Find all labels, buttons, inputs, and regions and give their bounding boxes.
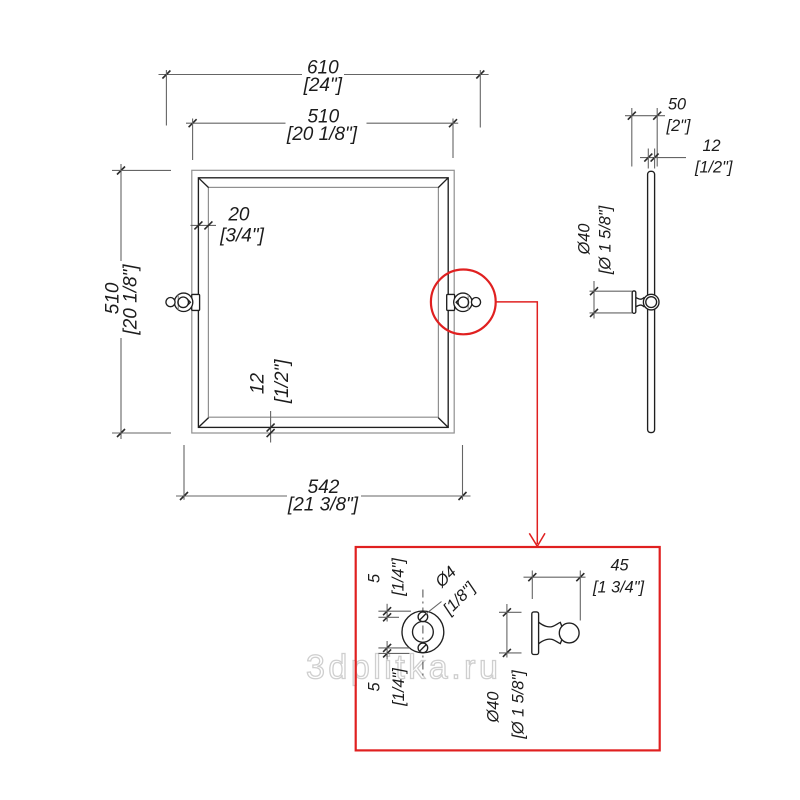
- side view pivot: stem bottom edge: [636, 305, 645, 307]
- dimension 510 left extension bottom: [112, 432, 171, 434]
- left pivot: hub notch: [188, 300, 190, 305]
- side view pivot: ring inner: [646, 297, 657, 308]
- dimension 542 extension left: [183, 445, 185, 500]
- dimension 12 front tick bottom: [267, 429, 275, 437]
- detail dimension dia40 tick bottom: [503, 649, 511, 657]
- dimension 542 tick left: [180, 492, 188, 500]
- detail plate: centerline: [422, 590, 424, 680]
- front view: bevel diagonal bottom-left: [199, 418, 209, 427]
- detail dimension 5 bottom extension 2: [378, 652, 409, 654]
- svg-text:[21 3/8"]: [21 3/8"]: [287, 495, 359, 516]
- detail dimension dia40 extension bottom: [499, 652, 522, 654]
- dimension 12 front line: [270, 411, 272, 443]
- red leader arrowhead: [529, 533, 545, 546]
- dimension 510 top extension left: [192, 119, 194, 161]
- dimension 510 top text mask: [286, 106, 367, 141]
- detail knob: wall plate: [532, 612, 539, 655]
- dimension 12 side extension left: [647, 149, 649, 169]
- dimension 50 extension right: [656, 108, 658, 167]
- dimension 12 side tick right: [651, 154, 659, 162]
- detail knob: stem top edge: [539, 622, 562, 627]
- svg-text:12: 12: [248, 373, 269, 395]
- detail plate: bottom screw: [418, 643, 428, 653]
- dimension 12 front tick top: [267, 424, 275, 432]
- front view: bevel rect: [198, 178, 448, 428]
- detail dimension dia4 leader: [426, 602, 442, 614]
- svg-text:Ø40: Ø40: [576, 224, 594, 256]
- dimension 610 tick right: [476, 71, 484, 79]
- svg-text:[1/4"]: [1/4"]: [390, 668, 408, 707]
- dimension 542 line: [176, 495, 471, 497]
- dimension 20 tick right: [204, 221, 212, 229]
- side view: mirror bar: [648, 171, 655, 432]
- svg-text:[Ø 1 5/8"]: [Ø 1 5/8"]: [510, 670, 528, 740]
- detail dimension 45 extension left: [531, 571, 533, 600]
- detail dimension dia40 tick top: [503, 608, 511, 616]
- svg-text:[3/4"]: [3/4"]: [219, 226, 264, 247]
- dimension 20 line: [191, 224, 217, 226]
- svg-text:5: 5: [366, 682, 384, 692]
- right pivot: inner hub circle: [458, 297, 469, 308]
- detail knob: ball: [559, 623, 579, 643]
- red detail box: [356, 547, 660, 750]
- svg-text:[1 3/4"]: [1 3/4"]: [592, 579, 645, 597]
- dimension 50 line: [625, 115, 665, 117]
- svg-text:[1/4"]: [1/4"]: [390, 558, 408, 597]
- dimension 510 left tick top: [117, 167, 125, 175]
- svg-text:[24"]: [24"]: [303, 75, 343, 96]
- dimension 510 top tick left: [189, 119, 197, 127]
- svg-text:[20 1/8"]: [20 1/8"]: [286, 124, 358, 145]
- dimension 510 top tick right: [449, 119, 457, 127]
- svg-text:12: 12: [702, 137, 720, 155]
- dimension 12 side line: [640, 157, 686, 159]
- side view pivot: ring outer: [643, 294, 659, 310]
- front view: bevel diagonal top-right: [438, 178, 448, 187]
- dimension 50 tick left: [628, 112, 636, 120]
- detail dimension 5 bottom tick 1: [383, 644, 391, 652]
- svg-text:[Ø 1 5/8"]: [Ø 1 5/8"]: [597, 205, 615, 275]
- detail plate: bottom screw slot: [420, 645, 427, 652]
- red callout circle: [431, 270, 496, 335]
- left pivot: end knob circle: [166, 298, 175, 307]
- dimension 610 line: [159, 74, 489, 76]
- left pivot: flange chord line: [177, 295, 179, 310]
- right pivot: hub notch: [456, 300, 458, 305]
- right pivot: knob flange circle: [454, 293, 472, 311]
- right pivot: flange chord line: [467, 295, 469, 310]
- svg-text:[20 1/8"]: [20 1/8"]: [121, 264, 142, 336]
- detail plate: outer circle: [402, 611, 444, 653]
- front view: inner glass rect: [208, 187, 438, 417]
- detail dimension dia40 line: [506, 604, 508, 658]
- dimension 50 extension left: [631, 108, 633, 167]
- svg-text:[2"]: [2"]: [666, 117, 691, 135]
- left pivot: mounting plate: [192, 294, 200, 310]
- left pivot: inner hub circle: [178, 297, 189, 308]
- dimension 510 left line: [120, 164, 122, 439]
- dimension 542 tick right: [459, 492, 467, 500]
- detail plate: top screw slot: [420, 613, 427, 620]
- detail dimension 45 tick left: [528, 573, 536, 581]
- dimension dia40 side extension top: [590, 290, 632, 292]
- left pivot: knob flange circle: [174, 293, 192, 311]
- dimension 542 text mask: [287, 494, 361, 502]
- dimension 542 extension right: [462, 445, 464, 500]
- svg-text:50: 50: [668, 96, 686, 114]
- dimension dia40 side extension bottom: [590, 312, 632, 314]
- front view: outer frame rect: [192, 170, 454, 433]
- front view: bevel diagonal top-left: [199, 178, 209, 187]
- dimension dia40 side line: [593, 281, 595, 319]
- svg-text:20: 20: [227, 205, 250, 226]
- dimension dia40 side tick bottom: [590, 309, 598, 317]
- svg-text:45: 45: [610, 556, 629, 574]
- svg-text:[1/2"]: [1/2"]: [694, 158, 733, 176]
- dimension 610 extension left: [165, 70, 167, 126]
- dimension 12 side extension right: [654, 149, 656, 169]
- dimension 610 tick left: [162, 71, 170, 79]
- right pivot: end knob circle: [471, 298, 480, 307]
- svg-text:[1/2"]: [1/2"]: [272, 359, 293, 404]
- dimension 610 text mask: [302, 56, 344, 75]
- dimension 510 left text mask: [103, 261, 139, 338]
- side view pivot: wall plate: [632, 291, 636, 313]
- detail dimension 5 bottom tick 2: [383, 649, 391, 657]
- detail dimension 45 extension right: [579, 571, 581, 621]
- detail dimension 45 line: [524, 576, 586, 578]
- dimension 610 extension right: [479, 70, 481, 128]
- dimension 12 side tick left: [644, 154, 652, 162]
- dimension 510 left tick bottom: [117, 429, 125, 437]
- svg-text:Ø40: Ø40: [484, 692, 502, 724]
- detail knob: stem bottom edge: [539, 639, 562, 644]
- detail plate: top screw: [418, 612, 428, 622]
- detail plate: inner circle: [413, 622, 434, 643]
- dimension 510 top line: [186, 122, 458, 124]
- right pivot: mounting plate: [447, 294, 455, 310]
- dimension 50 tick right: [653, 112, 661, 120]
- front view: bevel diagonal bottom-right: [438, 418, 448, 427]
- red leader line: [496, 302, 538, 544]
- detail dimension 5 top extension 1: [378, 610, 411, 612]
- detail dimension 45 tick right: [576, 573, 584, 581]
- detail dimension 5 bottom line: [386, 641, 388, 660]
- detail dimension dia40 extension top: [499, 611, 522, 613]
- detail dimension 5 bottom extension 1: [378, 647, 409, 649]
- detail dimension 5 top tick 1: [383, 607, 391, 615]
- detail dimension 5 top line: [386, 604, 388, 622]
- dimension dia40 side tick top: [590, 287, 598, 295]
- detail dimension 5 top extension 2: [378, 616, 399, 618]
- side view pivot: stem top edge: [636, 297, 645, 299]
- svg-text:5: 5: [366, 573, 384, 583]
- dimension 510 left extension top: [112, 169, 171, 171]
- detail dimension 5 top tick 2: [383, 613, 391, 621]
- dimension 20 tick left: [194, 221, 202, 229]
- dimension 510 top extension right: [452, 119, 454, 159]
